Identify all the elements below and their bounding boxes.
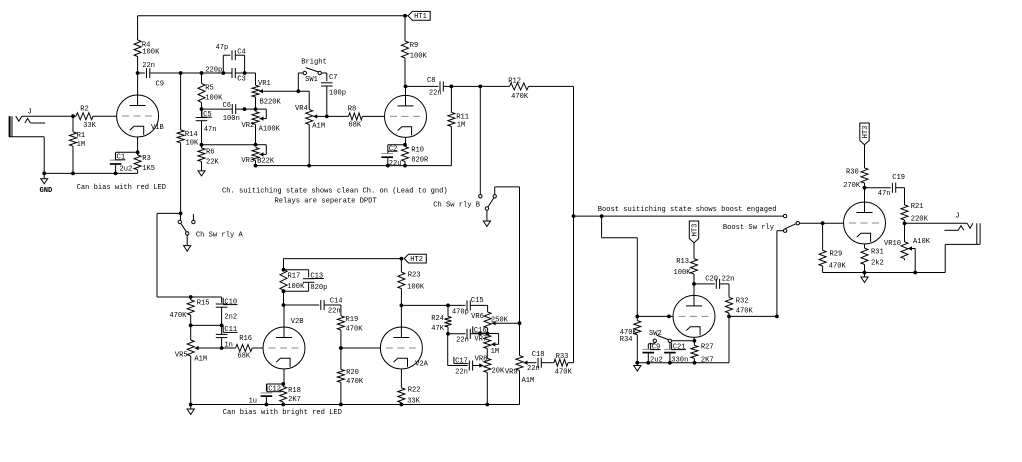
wire rly B to VR9: [519, 187, 521, 356]
svg-text:R5: R5: [205, 84, 214, 92]
text ch switching note: [222, 188, 448, 196]
svg-text:C20: C20: [705, 276, 718, 284]
svg-text:2K7: 2K7: [288, 396, 301, 404]
potentiometer VR7: [474, 334, 499, 357]
wire R2 to V1B grid: [93, 115, 117, 117]
text bias note 2: [223, 409, 342, 417]
svg-text:A1M: A1M: [194, 355, 207, 363]
svg-text:C5: C5: [203, 111, 212, 119]
svg-text:VR7: VR7: [474, 336, 487, 344]
node SW1 left junction: [296, 89, 300, 93]
resistor R27: [691, 341, 714, 365]
svg-text:470K: 470K: [829, 263, 847, 271]
potentiometer VR8: [475, 355, 505, 404]
potentiometer VR1: [252, 73, 282, 106]
input jack J: [10, 109, 46, 137]
potentiometer VR4: [295, 91, 327, 165]
node C11 bottom junction: [220, 346, 224, 350]
resistor R14: [177, 73, 199, 213]
svg-text:22n: 22n: [722, 276, 735, 284]
svg-text:R18: R18: [288, 387, 301, 395]
node V1A plate junction: [404, 85, 408, 89]
capacitor C1: [110, 153, 132, 173]
svg-text:R11: R11: [456, 114, 469, 122]
node C11 top junction: [220, 324, 224, 328]
svg-text:Ch Sw rly A: Ch Sw rly A: [196, 232, 244, 240]
svg-text:C13: C13: [310, 272, 323, 280]
svg-text:220K: 220K: [911, 215, 929, 223]
node V1B cathode junction: [136, 150, 140, 154]
svg-text:VR10: VR10: [884, 240, 901, 248]
svg-text:HT3: HT3: [691, 224, 699, 237]
wire jack sleeve to ground: [945, 244, 980, 272]
node V2B plate junction: [282, 303, 286, 307]
svg-text:VR4: VR4: [295, 105, 308, 113]
node R15 bottom junction: [189, 324, 193, 328]
resistor R3: [134, 152, 155, 173]
wire output ground rail: [823, 272, 946, 274]
svg-text:Can bias with red LED: Can bias with red LED: [77, 184, 166, 192]
svg-text:2k2: 2k2: [871, 259, 884, 267]
node rly A junction: [179, 212, 183, 216]
node R20 bottom junction: [339, 403, 343, 407]
wire rly B feed: [479, 86, 481, 194]
resistor R17: [280, 259, 305, 305]
capacitor C9 boost: [643, 343, 663, 365]
svg-text:C3: C3: [237, 76, 246, 84]
svg-text:33K: 33K: [407, 397, 421, 405]
tube V2A: [380, 327, 428, 369]
svg-text:A10K: A10K: [913, 238, 931, 246]
svg-text:470K: 470K: [736, 308, 754, 316]
node C7 bottom junction: [325, 115, 329, 119]
capacitor C18: [527, 351, 554, 373]
svg-text:22K: 22K: [206, 159, 220, 167]
svg-text:R22: R22: [408, 387, 421, 395]
node VR3 top junction: [254, 143, 258, 147]
node R24 top junction: [446, 304, 450, 308]
svg-text:R15: R15: [197, 300, 210, 308]
wire V1B plate lead: [137, 73, 139, 95]
svg-text:R21: R21: [911, 203, 924, 211]
svg-text:R12: R12: [508, 77, 521, 85]
svg-text:HT2: HT2: [410, 256, 423, 264]
wire C12 to rail: [265, 396, 269, 406]
svg-text:R10: R10: [411, 147, 424, 155]
svg-text:R8: R8: [348, 106, 357, 114]
wire boost ground rail: [637, 362, 729, 364]
node R21 bottom junction: [903, 221, 907, 225]
wire V2B plate lead: [283, 305, 285, 327]
svg-text:22n: 22n: [328, 308, 341, 316]
svg-text:470K: 470K: [346, 378, 364, 386]
resistor R29: [819, 223, 846, 272]
wire jack sleeve to ground: [9, 137, 44, 174]
wire lower ground rail: [191, 404, 520, 406]
tube output V4: [844, 202, 886, 244]
node boost cathode junction: [693, 339, 697, 343]
svg-text:68K: 68K: [237, 352, 251, 360]
node R22 bottom junction: [400, 403, 404, 407]
svg-text:100K: 100K: [142, 49, 160, 57]
svg-text:20K: 20K: [492, 367, 506, 375]
svg-text:VR6: VR6: [471, 313, 484, 321]
resistor R16: [222, 335, 263, 360]
wire V2B cathode lead: [283, 369, 285, 384]
flag HT3 boost: [689, 221, 699, 243]
wire VR6 to VR7: [487, 328, 489, 334]
svg-text:J: J: [28, 109, 32, 117]
node rly B feed junction: [478, 85, 482, 89]
wire C2 to rail: [386, 157, 390, 167]
svg-text:C10: C10: [224, 298, 237, 306]
wire R21 to jack tip: [905, 222, 968, 224]
node V2B cathode junction: [281, 382, 285, 386]
wire boost plate lead: [693, 284, 695, 296]
capacitor C2: [381, 146, 401, 168]
potentiometer VR2: [242, 109, 281, 133]
svg-text:2u2: 2u2: [650, 356, 663, 364]
wire output plate lead: [864, 188, 866, 202]
svg-text:47p: 47p: [216, 44, 229, 52]
svg-text:22u: 22u: [389, 160, 402, 168]
svg-text:A1M: A1M: [522, 377, 535, 385]
capacitor C13: [284, 270, 328, 292]
tube V2B: [263, 318, 305, 369]
svg-text:C7: C7: [329, 74, 338, 82]
svg-text:C21: C21: [673, 343, 686, 351]
flag HT2: [404, 254, 426, 264]
svg-text:1K5: 1K5: [142, 165, 155, 173]
svg-text:C2: C2: [389, 146, 398, 154]
svg-text:22n: 22n: [527, 365, 540, 373]
svg-text:C18: C18: [532, 351, 545, 359]
svg-text:100K: 100K: [287, 283, 305, 291]
svg-text:R33: R33: [556, 353, 569, 361]
node VR9 top junction: [518, 321, 522, 325]
node R9 top junction: [403, 14, 407, 18]
svg-text:C1: C1: [117, 154, 126, 162]
node boost line junction: [572, 214, 576, 218]
svg-text:R3: R3: [142, 155, 151, 163]
svg-text:C12: C12: [268, 386, 281, 394]
node R5 top junction: [200, 71, 204, 75]
node VR5 bottom junction: [189, 403, 193, 407]
svg-text:22n: 22n: [429, 90, 442, 98]
node VR2 top junction: [254, 107, 258, 111]
node R14 top junction: [179, 71, 183, 75]
capacitor C11: [216, 325, 238, 349]
ground rly A: [184, 235, 191, 251]
wire R6 to VR3: [202, 144, 256, 146]
resistor R31: [861, 244, 884, 273]
node R18 bottom junction: [281, 403, 285, 407]
node R19 bottom junction: [339, 346, 343, 350]
svg-text:A100K: A100K: [259, 125, 281, 133]
resistor R20: [337, 348, 363, 405]
resistor R10: [402, 145, 429, 166]
node R10 bottom junction: [403, 164, 407, 168]
svg-text:B22K: B22K: [257, 157, 275, 165]
switch SW1: [301, 59, 327, 85]
svg-text:470K: 470K: [555, 369, 573, 377]
svg-text:HT3: HT3: [862, 126, 870, 139]
svg-text:22n: 22n: [455, 368, 468, 376]
resistor R30: [843, 145, 868, 190]
wire SW1 left stub: [298, 73, 303, 91]
svg-text:47n: 47n: [204, 126, 217, 134]
switch Ch Sw rly A: [178, 213, 243, 239]
svg-text:2K7: 2K7: [701, 357, 714, 365]
svg-text:HT1: HT1: [414, 13, 427, 21]
ground boost rail: [634, 363, 641, 371]
svg-text:470p: 470p: [452, 308, 469, 316]
node boost branch junction: [600, 214, 604, 218]
svg-text:R17: R17: [288, 273, 301, 281]
capacitor C8: [406, 77, 452, 97]
wire rly A to R15: [157, 213, 191, 297]
node R27 bottom junction: [693, 361, 697, 365]
node R17 top junction: [282, 268, 286, 272]
svg-text:Ch. suitiching state shows cle: Ch. suitiching state shows clean Ch. on …: [222, 188, 448, 196]
resistor R19: [337, 316, 363, 348]
node R34 top junction: [635, 315, 639, 319]
wire VR2 to VR3: [255, 125, 257, 145]
svg-text:SW2: SW2: [649, 330, 662, 338]
node R6 top junction: [200, 143, 204, 147]
node VR4 bottom junction: [307, 164, 311, 168]
wire VR3 to rail: [255, 160, 257, 165]
svg-text:2n2: 2n2: [224, 314, 237, 322]
svg-text:68K: 68K: [348, 122, 362, 130]
svg-text:R27: R27: [701, 344, 714, 352]
node R31 bottom junction: [863, 271, 867, 275]
svg-text:820p: 820p: [310, 284, 327, 292]
potentiometer VR5: [175, 325, 222, 404]
svg-text:Boost suitiching state shows b: Boost suitiching state shows boost engag…: [598, 206, 777, 214]
svg-text:J: J: [955, 213, 959, 221]
ground GND: [40, 173, 53, 195]
svg-text:Can bias with bright red LED: Can bias with bright red LED: [223, 409, 342, 417]
svg-text:2u2: 2u2: [120, 165, 133, 173]
svg-text:Relays are seperate DPDT: Relays are seperate DPDT: [275, 198, 377, 206]
capacitor C5: [196, 109, 217, 134]
resistor R18: [280, 384, 301, 405]
resistor R1: [70, 116, 86, 173]
wire cathode to C1: [116, 152, 138, 158]
text boost note: [598, 206, 777, 214]
wire VR1 wiper: [259, 89, 309, 93]
node VR8 bottom junction: [485, 403, 489, 407]
svg-text:33K: 33K: [83, 122, 97, 130]
node V2A plate junction: [400, 304, 404, 308]
svg-text:100K: 100K: [410, 53, 428, 61]
node C21 bottom junction: [668, 361, 672, 365]
svg-text:22n: 22n: [456, 337, 469, 345]
capacitor C19: [865, 174, 906, 205]
wire V1B cathode lead: [137, 137, 139, 152]
svg-text:VR2: VR2: [242, 122, 255, 130]
capacitor C15: [448, 297, 488, 316]
wire boost line: [574, 215, 784, 217]
svg-text:R31: R31: [871, 248, 884, 256]
node VR3 bottom junction: [254, 164, 258, 168]
wire input ground rail: [44, 172, 137, 174]
svg-text:R34: R34: [620, 336, 633, 344]
capacitor C21: [664, 343, 688, 365]
resistor R23: [398, 259, 425, 306]
node V1B plate junction: [136, 71, 140, 75]
capacitor C12: [249, 385, 282, 406]
wire boost grid wire: [637, 315, 673, 317]
node boost out junction: [775, 315, 779, 319]
potentiometer VR10: [884, 223, 931, 272]
svg-text:Boost Sw rly: Boost Sw rly: [723, 224, 775, 232]
capacitor C10: [216, 298, 238, 322]
wire C11 to grid wire: [221, 338, 223, 348]
svg-text:100K: 100K: [407, 283, 425, 291]
svg-text:R23: R23: [408, 272, 421, 280]
svg-text:C19: C19: [892, 174, 905, 182]
capacitor C14: [284, 298, 343, 316]
node V1A cathode junction: [403, 143, 407, 147]
resistor R24: [431, 305, 451, 333]
node R29 top junction: [821, 221, 825, 225]
node R17 bottom junction: [282, 289, 286, 293]
wire boost cathode lead: [693, 337, 695, 341]
resistor R13: [674, 243, 698, 284]
tube V1A: [385, 95, 427, 137]
svg-text:C11: C11: [224, 326, 237, 334]
svg-text:R16: R16: [239, 335, 252, 343]
svg-text:100p: 100p: [329, 90, 346, 98]
svg-text:VR9: VR9: [505, 369, 518, 377]
resistor R12: [480, 77, 573, 101]
wire VR7 to VR8: [486, 349, 488, 359]
wire cathode to SW2: [672, 340, 695, 342]
wire boost out riser: [777, 231, 784, 317]
wire C8 node to rly B feed: [451, 85, 480, 87]
node R15 top junction: [189, 295, 193, 299]
flag HT3 output: [860, 123, 870, 145]
wire HT2 net: [284, 258, 402, 260]
svg-text:820R: 820R: [411, 157, 429, 165]
resistor R2: [76, 106, 97, 131]
wire cathode return rail: [256, 165, 452, 167]
text bias note 1: [77, 184, 166, 192]
wire C5 to R6: [201, 121, 203, 145]
wire V2A plate lead: [400, 305, 402, 327]
svg-text:V1B: V1B: [151, 124, 164, 132]
svg-text:C8: C8: [427, 77, 436, 85]
node boost grid junction: [667, 315, 671, 319]
wire R5 node to C4 branch: [202, 72, 224, 74]
wire cathode to C2: [388, 145, 405, 154]
resistor R9: [402, 16, 428, 87]
capacitor C7: [321, 74, 346, 116]
capacitor C3: [202, 66, 256, 83]
wire V2A cathode lead: [400, 369, 402, 388]
resistor R4: [134, 16, 160, 73]
node R32 tap junction: [727, 315, 731, 319]
svg-text:10K: 10K: [186, 140, 200, 148]
svg-text:C14: C14: [330, 298, 343, 306]
node HT2 junction: [400, 257, 404, 261]
svg-text:R19: R19: [346, 316, 359, 324]
svg-text:100n: 100n: [223, 115, 240, 123]
svg-text:1M: 1M: [491, 348, 500, 356]
svg-text:A1M: A1M: [312, 122, 325, 130]
node R1 top junction: [71, 114, 75, 118]
ground rly B: [483, 210, 490, 226]
tube boost V3: [673, 295, 715, 337]
switch SW2: [649, 330, 672, 342]
svg-text:B220K: B220K: [260, 98, 282, 106]
wire C9 node to R5: [181, 72, 202, 74]
capacitor C6: [202, 102, 256, 123]
svg-text:R24: R24: [431, 315, 444, 323]
resistor R11: [448, 86, 469, 165]
svg-text:Ch Sw rly B: Ch Sw rly B: [433, 202, 480, 210]
text relays note: [275, 198, 377, 206]
resistor R34: [620, 316, 641, 362]
resistor R33: [554, 353, 574, 377]
node C4 right junction: [243, 71, 247, 75]
svg-text:330n: 330n: [671, 356, 688, 364]
svg-text:C9: C9: [156, 80, 165, 88]
node input ground junction: [42, 172, 46, 176]
svg-text:C15: C15: [471, 297, 484, 305]
wire HT1 rail: [138, 15, 409, 17]
svg-text:47n: 47n: [878, 190, 891, 198]
svg-text:SW1: SW1: [305, 76, 318, 84]
node R1 bottom junction: [71, 172, 75, 176]
wire switch to output grid: [800, 222, 844, 224]
resistor R15: [169, 297, 209, 325]
resistor R21: [901, 203, 929, 223]
ground output: [861, 273, 868, 283]
svg-text:220p: 220p: [205, 66, 222, 74]
svg-text:C17: C17: [455, 357, 468, 365]
svg-text:C9: C9: [652, 343, 661, 351]
wire boost branch: [602, 216, 638, 316]
node VR7 top junction: [478, 332, 489, 336]
svg-text:R14: R14: [185, 131, 198, 139]
svg-text:R6: R6: [206, 148, 215, 156]
svg-text:R29: R29: [830, 251, 843, 259]
svg-text:C6: C6: [223, 102, 232, 110]
node boost plate junction: [692, 282, 696, 286]
tube V1B: [117, 95, 164, 137]
wire divider to V2A grid: [341, 347, 381, 349]
potentiometer VR3: [241, 145, 274, 166]
node R11 top junction: [450, 85, 454, 89]
wire R15 to C11: [191, 324, 222, 326]
wire plate to tone stack: [401, 304, 448, 306]
svg-text:VR3: VR3: [241, 157, 254, 165]
node output plate junction: [863, 186, 867, 190]
resistor R8: [327, 106, 385, 130]
svg-text:VR5: VR5: [175, 352, 188, 360]
svg-text:270K: 270K: [843, 182, 861, 190]
svg-text:250K: 250K: [491, 317, 509, 325]
switch Ch Sw rly B: [433, 187, 519, 210]
wire jack tip to R2: [22, 115, 76, 117]
node R24 bottom junction: [446, 332, 450, 336]
wire SW1 right stub: [321, 73, 326, 81]
capacitor C16: [448, 326, 487, 344]
svg-text:C4: C4: [237, 49, 246, 57]
